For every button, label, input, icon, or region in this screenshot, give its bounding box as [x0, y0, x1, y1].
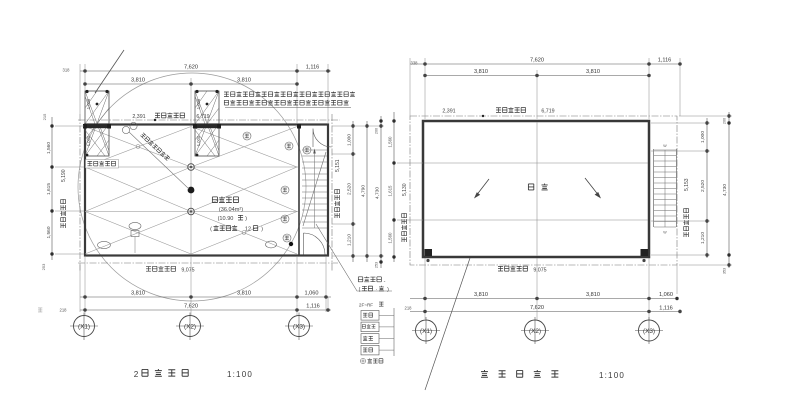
- svg-text:2,391: 2,391: [442, 109, 455, 115]
- right dim column 1 (left plan): [352, 121, 354, 262]
- roof slope arrow left: [476, 179, 490, 197]
- svg-text:(X3): (X3): [643, 328, 655, 335]
- svg-text:3,810: 3,810: [131, 77, 145, 83]
- bottom boundary label left plan: [146, 267, 151, 272]
- wall junction blocks: [83, 124, 87, 129]
- escape hatch box 1: [85, 91, 109, 156]
- top dim row1 left plan: [80, 70, 331, 72]
- left roof extension lines: [397, 162, 423, 164]
- left extension lines: [55, 125, 84, 127]
- leader to escape hatch: [95, 50, 124, 93]
- svg-text:2: 2: [134, 370, 139, 379]
- svg-text:·: ·: [376, 287, 378, 293]
- svg-text:4,730: 4,730: [375, 187, 381, 199]
- grid nodes: [188, 164, 195, 171]
- site boundary rect right plan: [410, 116, 677, 265]
- svg-text:1,000: 1,000: [86, 135, 91, 146]
- top dim row2 left plan: [85, 83, 297, 85]
- svg-text:(36.04m²): (36.04m²): [219, 207, 243, 213]
- road boundary line top (left plan): [78, 119, 340, 121]
- svg-text:3,810: 3,810: [474, 292, 488, 298]
- boundary label right of right plan (vertical): [683, 178, 690, 237]
- svg-text:2,520: 2,520: [347, 183, 353, 195]
- svg-text:(X2): (X2): [529, 328, 541, 335]
- svg-text:218: 218: [405, 306, 413, 311]
- right dim column 3 (left plan): [380, 116, 382, 268]
- boundary label right of left plan (vertical): [334, 159, 341, 218]
- svg-text:): ): [245, 216, 247, 222]
- svg-text:1,060: 1,060: [659, 292, 673, 298]
- title right plan: [481, 370, 488, 377]
- right dim column 2 (left plan): [366, 121, 368, 262]
- svg-text:318: 318: [63, 68, 71, 73]
- faint stamp mark: [38, 308, 42, 312]
- svg-text:(X2): (X2): [184, 323, 196, 330]
- bottom extension lines left plan: [84, 257, 86, 315]
- svg-text:12: 12: [245, 227, 251, 233]
- svg-text:1,560: 1,560: [388, 136, 393, 148]
- svg-text:353: 353: [723, 268, 727, 274]
- keyed note circles: [243, 132, 251, 140]
- svg-text:1,560: 1,560: [46, 142, 52, 154]
- svg-text:6,719: 6,719: [541, 109, 554, 115]
- svg-text:(X3): (X3): [293, 323, 305, 330]
- large clearance circle (avoidance radius) left plan: [78, 73, 306, 301]
- svg-text:(10.90: (10.90: [218, 216, 234, 222]
- svg-text:5,151: 5,151: [335, 159, 341, 172]
- svg-text:1,000: 1,000: [347, 134, 353, 146]
- svg-text:253: 253: [41, 263, 46, 270]
- bottom extension lines right plan: [424, 258, 426, 319]
- svg-text:1,116: 1,116: [306, 304, 320, 310]
- svg-text:(: (: [210, 227, 212, 233]
- svg-text:1,210: 1,210: [700, 232, 706, 244]
- right dim column2 right plan: [728, 112, 730, 268]
- svg-text:(: (: [359, 287, 361, 293]
- svg-text:200: 200: [723, 118, 727, 124]
- svg-text:3,810: 3,810: [474, 69, 488, 75]
- svg-text:5,130: 5,130: [402, 183, 408, 196]
- svg-text:1,000: 1,000: [700, 131, 706, 143]
- outer wall left plan: [85, 125, 328, 256]
- roof fold lines: [424, 162, 648, 164]
- svg-text:215: 215: [42, 113, 47, 120]
- fixtures bottom-left: [129, 222, 141, 229]
- boundary label left (vertical): [60, 169, 67, 228]
- right extension lines right plan: [651, 122, 710, 124]
- stairs left plan: [302, 150, 327, 228]
- ceiling grid vertical center: [190, 127, 192, 254]
- svg-text:1:100: 1:100: [227, 370, 253, 379]
- svg-text:-: -: [384, 279, 386, 285]
- top extension lines left plan: [84, 64, 86, 91]
- bottom dim row2 right plan: [410, 311, 681, 313]
- svg-text:4,790: 4,790: [361, 185, 367, 197]
- svg-text:1,000: 1,000: [196, 135, 201, 146]
- room label: restaurant: [212, 197, 217, 203]
- svg-text:338: 338: [411, 61, 419, 66]
- svg-text:1,116: 1,116: [306, 64, 320, 70]
- stair partition wall: [298, 126, 300, 255]
- svg-text:9,075: 9,075: [533, 267, 546, 273]
- svg-text:(X1): (X1): [78, 323, 90, 330]
- top dim row2 right plan: [425, 75, 649, 77]
- grid bubbles left plan: [74, 316, 95, 337]
- svg-text:218: 218: [60, 308, 68, 313]
- svg-text:1,060: 1,060: [305, 290, 319, 296]
- svg-text:2,391: 2,391: [132, 114, 145, 120]
- svg-text:200: 200: [375, 128, 379, 134]
- right dim column1 right plan: [706, 118, 708, 258]
- svg-text:1,116: 1,116: [659, 306, 673, 312]
- roof label: [528, 184, 533, 190]
- svg-text:3,810: 3,810: [586, 292, 600, 298]
- ceiling grid horizontals: [86, 166, 298, 168]
- grid bubbles right plan: [416, 320, 437, 341]
- svg-text:9,075: 9,075: [181, 268, 194, 274]
- svg-text:1,210: 1,210: [347, 234, 353, 246]
- svg-text:3,810: 3,810: [237, 77, 251, 83]
- ceiling note circled marks: [122, 126, 129, 133]
- external stairs right plan: [653, 149, 655, 227]
- top extension lines right plan: [424, 58, 426, 119]
- svg-text:(X1): (X1): [420, 328, 432, 335]
- svg-text:2,520: 2,520: [700, 180, 706, 192]
- svg-text:3,810: 3,810: [237, 290, 251, 296]
- top dim row1 right plan: [410, 63, 681, 65]
- ceiling X-braces: [85, 127, 297, 255]
- svg-text:1,560: 1,560: [46, 226, 52, 238]
- site boundary line left (left plan): [79, 114, 81, 272]
- svg-text:1,615: 1,615: [388, 185, 393, 197]
- bottom dim row1 left plan: [80, 296, 331, 298]
- svg-text:6,719: 6,719: [196, 114, 209, 120]
- roof outline: [423, 121, 649, 257]
- svg-text:1,560: 1,560: [388, 232, 393, 244]
- door arc top right: [313, 129, 332, 148]
- handrail note: [360, 358, 365, 363]
- left dim column left plan: [51, 117, 53, 260]
- svg-text:1,000: 1,000: [196, 98, 201, 109]
- left dim column right plan: [393, 112, 395, 262]
- escape hatch label box: [86, 160, 119, 169]
- site boundary line right (left plan): [331, 114, 333, 272]
- svg-text:W: W: [663, 231, 667, 235]
- downspout leader right plan: [425, 258, 470, 390]
- roof slope arrow right: [585, 178, 600, 197]
- svg-text:7,620: 7,620: [530, 57, 544, 63]
- center ceiling point (black dot): [188, 187, 195, 194]
- equipment space label + leader: [316, 224, 392, 291]
- boundary label left of right plan (vertical): [401, 183, 408, 242]
- bottom boundary label right plan: [498, 266, 503, 271]
- door arc bottom right: [304, 233, 326, 255]
- svg-text:W: W: [663, 144, 667, 148]
- svg-text:3,810: 3,810: [131, 290, 145, 296]
- svg-text:1,615: 1,615: [46, 183, 52, 195]
- svg-text:1,000: 1,000: [86, 98, 91, 109]
- svg-text:7,620: 7,620: [184, 64, 198, 70]
- svg-text:4,730: 4,730: [722, 184, 728, 196]
- svg-text:253: 253: [375, 262, 379, 268]
- right extension lines (left plan): [332, 125, 384, 127]
- svg-text:5,153: 5,153: [684, 178, 690, 191]
- site boundary line bottom (left plan): [78, 262, 338, 264]
- bottom dim row2 left plan: [80, 309, 331, 311]
- svg-text:5,190: 5,190: [61, 169, 67, 182]
- svg-text:1:100: 1:100: [599, 371, 625, 380]
- escape apparatus note line2: [224, 100, 228, 105]
- bottom dim row1 right plan: [410, 298, 678, 300]
- ceiling note leader (diagonal): [129, 132, 189, 189]
- svg-text:3,810: 3,810: [586, 69, 600, 75]
- escape apparatus note line1: [224, 92, 229, 96]
- svg-text:): ): [261, 227, 263, 233]
- svg-text:2F~RF: 2F~RF: [359, 303, 373, 308]
- svg-text:1,116: 1,116: [658, 57, 672, 63]
- svg-text:): ): [387, 287, 389, 293]
- roof corner posts: [425, 249, 433, 256]
